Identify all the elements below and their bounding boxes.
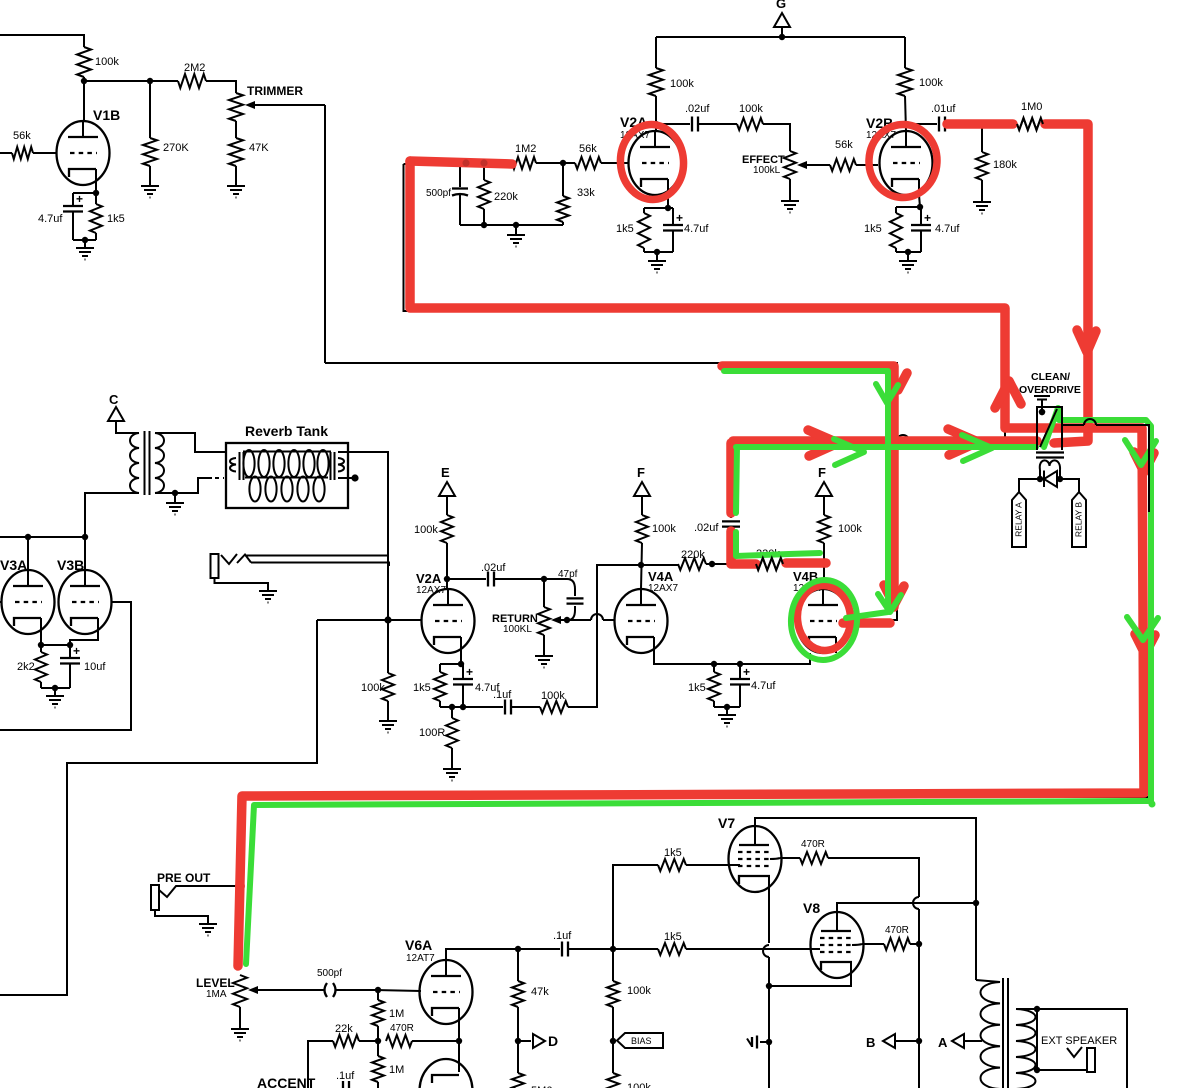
resistor 56k (V2B grid)	[830, 159, 856, 171]
signal wire to LEVEL pot (under marker)	[240, 797, 1149, 968]
wire 2M2 to TRIMMER	[206, 81, 236, 93]
wire transformer primary bottom to V3 plates rail	[85, 493, 139, 537]
svg-text:1M: 1M	[389, 1008, 404, 1020]
wire feedback to V4A plate node	[568, 565, 640, 707]
V7 cathode rail	[768, 876, 770, 943]
svg-text:56k: 56k	[835, 139, 853, 151]
ground below EFFECT pot	[789, 179, 791, 196]
wire transformer secondary top to tank input	[155, 433, 225, 452]
node junction V2A plate	[653, 121, 659, 127]
resistor 100k (V4B plate)	[823, 505, 825, 515]
cathode rail V4A V4B	[711, 661, 717, 667]
effects return wire to relay switch	[731, 440, 897, 442]
red marker effects send loop	[410, 161, 512, 164]
svg-text:EXT SPEAKER: EXT SPEAKER	[1041, 1035, 1117, 1047]
wire V3B grid loop to left edge	[0, 602, 131, 730]
red marker overdrive path from V2B coupling	[947, 119, 1013, 129]
red marker circle V2A	[618, 122, 686, 201]
svg-text:470R: 470R	[885, 925, 909, 936]
svg-text:4.7uf: 4.7uf	[751, 680, 776, 692]
capacitor 4.7uf (V2B cathode)	[920, 207, 922, 225]
svg-text:V2A: V2A	[416, 571, 442, 586]
cathode bottom rail and ground V4	[714, 706, 740, 708]
tank input transducer	[230, 458, 236, 472]
svg-text:1k5: 1k5	[688, 682, 706, 694]
red marker effects return line	[733, 436, 1037, 446]
svg-text:+: +	[743, 665, 750, 679]
svg-text:10uf: 10uf	[84, 661, 106, 673]
svg-text:.1uf: .1uf	[553, 930, 572, 942]
resistor 470R (V6A cathode)	[412, 1040, 459, 1042]
relay separator plates	[1036, 451, 1064, 453]
node junction 180k tap	[979, 121, 985, 127]
resistor 1M lower	[377, 1041, 379, 1056]
resistor 1k5 (V7 grid)	[613, 865, 658, 949]
svg-text:470R: 470R	[390, 1023, 414, 1034]
svg-text:2k2: 2k2	[17, 661, 35, 673]
svg-text:1k5: 1k5	[664, 847, 682, 859]
resistor 2M2	[178, 74, 206, 88]
svg-text:4.7uf: 4.7uf	[935, 223, 960, 235]
svg-text:OVERDRIVE: OVERDRIVE	[1019, 384, 1081, 396]
resistor 100R	[451, 707, 453, 718]
svg-text:.1uf: .1uf	[336, 1070, 355, 1082]
wire G rail to both 100k plate resistors	[656, 36, 905, 38]
capacitor .1uf (phase inverter coupling)	[518, 948, 560, 950]
resistor 100k (V2B plate)	[898, 68, 912, 96]
svg-text:1k5: 1k5	[864, 223, 882, 235]
node junction 500pf to 1M	[375, 987, 381, 993]
wire 100k to V1B plate with node	[83, 77, 85, 122]
node D	[518, 1040, 531, 1042]
svg-text:100k: 100k	[838, 523, 862, 535]
svg-text:F: F	[637, 465, 645, 480]
svg-text:C: C	[109, 392, 119, 407]
resistor 1k5 (V4 cathode)	[713, 664, 715, 672]
svg-text:.02uf: .02uf	[694, 522, 719, 534]
svg-text:470R: 470R	[801, 839, 825, 850]
svg-text:1M2: 1M2	[515, 143, 536, 155]
capacitor 4.7uf (V4 cathode)	[739, 664, 741, 679]
svg-text:500pf: 500pf	[317, 968, 342, 979]
svg-text:100k: 100k	[627, 985, 651, 997]
wire V7 plate to OT primary top	[755, 818, 976, 980]
resistor 100k (feedback)	[511, 706, 540, 708]
svg-text:100kL: 100kL	[753, 165, 781, 176]
jack PRE OUT sleeve ground	[155, 910, 208, 919]
effects send wire (under red marker)	[404, 164, 1006, 440]
green marker circle V4B	[788, 578, 859, 662]
relay switch contact node	[1039, 409, 1045, 415]
trimmer wiper arrow	[253, 104, 325, 106]
red marker dot at PRE OUT	[235, 881, 245, 891]
wire return blend loop	[0, 620, 317, 995]
wire to RELAY B flag	[1060, 479, 1079, 492]
relay switch redrawn over marker	[1037, 407, 1062, 450]
svg-text:.02uf: .02uf	[481, 562, 506, 574]
svg-text:D: D	[548, 1033, 558, 1049]
svg-text:22k: 22k	[335, 1023, 353, 1035]
svg-text:12AT7: 12AT7	[406, 953, 435, 964]
RETURN wiper arrow to V4A grid	[560, 619, 591, 621]
resistor 100k (V1B plate)	[77, 47, 91, 77]
cathode hop over V8 grid wire	[763, 945, 769, 957]
wire V1B cathode to bypass network	[95, 185, 97, 193]
svg-text:56k: 56k	[579, 143, 597, 155]
ground below return load	[387, 701, 389, 716]
svg-text:+: +	[676, 211, 683, 225]
wire 1M2 to 56k with 33k node	[536, 162, 575, 164]
svg-text:RELAY B: RELAY B	[1073, 502, 1083, 537]
trimmer potentiometer TRIMMER	[229, 93, 243, 121]
cathode rail to bypass cap	[768, 986, 770, 1088]
wire input network to 1M2	[404, 163, 513, 164]
resistor 47K	[235, 121, 237, 138]
red marker down to .02uf	[726, 443, 736, 513]
cathode bottom rail and ground V3	[41, 687, 70, 689]
resistor 1k5 (V8 grid)	[613, 948, 658, 950]
return cable jack J1	[211, 554, 219, 578]
wire 47k to node D junction	[517, 1007, 519, 1041]
wire to EFFECT pot top	[763, 124, 790, 151]
wire V3A grid to left edge	[0, 601, 1, 603]
ground below 180k	[981, 180, 983, 197]
resistor 1k5 (V2A cathode)	[643, 208, 645, 213]
svg-text:47pf: 47pf	[558, 569, 578, 580]
jack EXT SPEAKER	[1037, 1069, 1087, 1071]
green marker effects return line	[736, 444, 1036, 450]
relay switch lever	[1040, 409, 1057, 447]
resistor 220k input	[483, 164, 485, 180]
capacitor 500pf (to V6A grid)	[325, 983, 328, 997]
wire 100k to BIAS junction	[612, 1007, 614, 1041]
svg-text:G: G	[776, 0, 786, 11]
wire 100k to V2A plate node	[446, 543, 448, 589]
cathode bottom rail and ground V2B	[896, 251, 921, 253]
wire 1k5 to V8 grid	[686, 948, 820, 950]
relay output wire to power amp	[1062, 424, 1084, 426]
wire V4A cathode to shared network	[654, 653, 714, 664]
resistor 1M0 redrawn over marker	[1017, 118, 1043, 130]
wire V2B cathode to bypass	[919, 195, 920, 207]
svg-text:1k5: 1k5	[664, 931, 682, 943]
resistor 1k5 (V1B cathode)	[95, 193, 97, 204]
svg-text:4.7uf: 4.7uf	[684, 223, 709, 235]
resistor 1M upper	[372, 1000, 384, 1026]
red marker arrow down from overdrive line	[1077, 330, 1096, 352]
capacitor 500pf input	[459, 164, 461, 187]
wire V6A plate to coupling rail	[446, 949, 518, 976]
wire 100k to V2A plate	[655, 96, 657, 131]
red marker circle V2B	[867, 123, 939, 199]
svg-text:100k: 100k	[739, 103, 763, 115]
capacitor .02uf (V2A coupling)	[656, 123, 690, 125]
wire to 2M2	[150, 80, 178, 82]
resistor 1M2	[512, 157, 536, 169]
wire 220k to .02uf node	[706, 563, 756, 565]
mini ground above relay switch	[1041, 390, 1043, 392]
potentiometer RETURN 100KL	[543, 579, 545, 607]
reverb springs	[243, 451, 331, 453]
svg-text:Reverb Tank: Reverb Tank	[245, 423, 328, 439]
svg-text:1k5: 1k5	[413, 682, 431, 694]
resistor 100k (bias divider lower, cut off)	[612, 1041, 614, 1073]
resistor 100k (reverb return V2A plate)	[446, 505, 448, 515]
svg-text:CLEAN/: CLEAN/	[1031, 371, 1070, 383]
resistor 220k (V4B grid)	[756, 558, 783, 570]
wire transformer secondary bottom grounded	[155, 478, 212, 493]
ground below RETURN pot	[543, 635, 545, 651]
svg-text:100k: 100k	[670, 78, 694, 90]
cathode bottom rail V2A mid	[440, 706, 463, 708]
red marker circle V4B	[795, 583, 853, 652]
wire 470R to screen rail	[828, 858, 919, 897]
svg-text:1MA: 1MA	[206, 989, 227, 1000]
wire V6A cathode down to V6B	[458, 1041, 460, 1072]
cathode bottom rail and ground V2A	[644, 251, 673, 253]
jack PRE OUT	[151, 885, 159, 910]
capacitor 4.7uf (V2A cathode)	[672, 208, 674, 225]
wire secondary top to speaker loop	[1016, 1008, 1037, 1010]
node junction OT feed	[973, 900, 979, 906]
resistor 33k	[562, 163, 564, 196]
resistor 1k5 (V2A mid cathode)	[439, 664, 441, 672]
resistor 100k (bias divider upper)	[612, 949, 614, 981]
wire long clean feed to V4B grid	[325, 363, 897, 620]
ground reverb secondary	[174, 493, 176, 498]
green marker return-to-V4B vertical	[724, 371, 888, 618]
resistor 220k (V4A plate out)	[641, 564, 678, 566]
capacitor 47pf bridge	[544, 579, 575, 596]
svg-text:500pf: 500pf	[426, 188, 451, 199]
svg-text:A: A	[938, 1035, 948, 1050]
screen rail hop over plate wire	[913, 897, 919, 909]
resistor 1k5 (V2B cathode)	[895, 207, 897, 213]
bottom rail 500pf/220k/33k with ground	[460, 224, 563, 226]
triode V6B (cut off at bottom)	[420, 1059, 473, 1088]
svg-text:2M2: 2M2	[184, 62, 205, 74]
red marker return-to-V4B vertical	[722, 366, 894, 607]
svg-text:270K: 270K	[163, 142, 189, 154]
ground below LEVEL	[239, 1007, 241, 1024]
resistor 220k redrawn over marker	[756, 558, 783, 570]
svg-text:V1B: V1B	[93, 107, 120, 123]
svg-text:+: +	[924, 211, 931, 225]
relay output wire redrawn over marker	[1062, 424, 1084, 426]
svg-text:100k: 100k	[627, 1082, 651, 1088]
wire V2A cathode to bypass	[667, 195, 669, 208]
svg-text:100k: 100k	[95, 56, 119, 68]
svg-text:1k5: 1k5	[616, 223, 634, 235]
wire 1k5 to V7 grid	[686, 864, 740, 866]
wire cathodes V3A V3B to shared network	[40, 634, 42, 645]
reverb transformer T1	[130, 433, 139, 493]
svg-text:PRE OUT: PRE OUT	[157, 871, 211, 885]
wire V2A(mid) cathode to bypass	[460, 653, 462, 664]
svg-text:F: F	[818, 465, 826, 480]
svg-text:+: +	[466, 665, 473, 679]
cathode rail V2B top	[896, 206, 921, 208]
svg-text:1M0: 1M0	[1021, 101, 1042, 113]
output transformer core	[1002, 978, 1004, 1088]
node PRE OUT tap	[237, 883, 243, 889]
wire 100k to V4A plate node	[641, 543, 642, 589]
ground below 100R	[451, 748, 453, 764]
cathode rail V2A top	[644, 207, 673, 209]
cathode rail V1B	[73, 192, 96, 194]
svg-text:47k: 47k	[531, 986, 549, 998]
junction 22k 470R 1M	[377, 1026, 379, 1041]
capacitor bypass (V7/V8 cathode)	[760, 1041, 769, 1043]
relay switch frame	[1037, 407, 1062, 450]
wire 22k to ACCENT loop	[308, 1041, 333, 1088]
svg-text:180k: 180k	[993, 159, 1017, 171]
svg-text:33k: 33k	[577, 187, 595, 199]
svg-text:47K: 47K	[249, 142, 269, 154]
wire 220k to V4B grid node	[783, 563, 824, 565]
reverb return input wire with 100k load	[317, 619, 388, 621]
green marker down to .02uf and 220k	[736, 447, 737, 513]
svg-text:100k: 100k	[652, 523, 676, 535]
resistor 47k	[517, 949, 519, 981]
resistor 100k (to EFFECT pot)	[698, 123, 737, 125]
red marker arrows on return line	[948, 429, 978, 455]
screen rail down to B node	[918, 944, 920, 1041]
wire plate rail V3A V3B	[0, 536, 85, 538]
resistor 5M6 (cut off)	[517, 1041, 519, 1073]
capacitor .02uf (loop send)	[730, 531, 732, 564]
jack sleeve ground	[215, 578, 269, 586]
tank output transducer	[330, 452, 332, 480]
resistor 1M0	[1017, 118, 1043, 130]
V6A cathode wire to 470R	[458, 1024, 460, 1041]
resistor 56k (V1B grid)	[0, 152, 12, 154]
LEVEL wiper arrow	[256, 989, 318, 991]
cathode bottom rail and ground V1B	[73, 239, 96, 241]
node junction screen rail	[910, 943, 919, 945]
wire .01uf to 1M0 (under red marker)	[945, 123, 1017, 125]
svg-text:100k: 100k	[541, 690, 565, 702]
wire trimmer wiper to long feed wire	[324, 105, 326, 363]
resistor 22k	[333, 1035, 359, 1047]
wire V8 plate to OT feed	[837, 903, 976, 912]
wire tank output to reverb return	[338, 452, 388, 620]
svg-text:LEVEL: LEVEL	[196, 976, 235, 990]
relay coil	[1040, 460, 1060, 470]
svg-text:+: +	[76, 192, 83, 206]
svg-text:V6A: V6A	[405, 937, 432, 953]
flag BIAS	[617, 1033, 663, 1048]
node junction V2B plate	[902, 121, 908, 127]
resistor 100k (V4A plate)	[641, 505, 643, 515]
green marker dot at bottom right corner	[1149, 801, 1156, 808]
resistor 470R (V7 screen)	[780, 857, 800, 859]
tank output sleeve stub with node	[338, 477, 352, 479]
EFFECT wiper arrow to 56k	[805, 164, 830, 166]
svg-text:V4A: V4A	[648, 569, 674, 584]
svg-text:V7: V7	[718, 815, 735, 831]
svg-text:100k: 100k	[361, 682, 385, 694]
capacitor .02uf (return coupling)	[447, 578, 486, 580]
resistor 100k (reverb return load)	[387, 620, 389, 673]
svg-text:220k: 220k	[494, 191, 518, 203]
wire junction to 270K	[84, 80, 150, 82]
wire 1M0 to overdrive feed (under red marker)	[1043, 124, 1090, 443]
red marker arrows down right rail	[1134, 452, 1154, 472]
capacitor 4.7uf (V2A mid cathode)	[462, 664, 464, 679]
svg-text:.02uf: .02uf	[685, 103, 710, 115]
potentiometer EFFECT 100kL	[784, 151, 796, 179]
wire 100k to V4B plate node	[823, 543, 825, 589]
resistor 470R (V8 screen)	[862, 943, 884, 945]
flag RELAY B	[1072, 492, 1086, 547]
svg-text:1k5: 1k5	[107, 213, 125, 225]
svg-text:56k: 56k	[13, 130, 31, 142]
ground below 270K	[149, 166, 151, 181]
svg-text:RELAY A: RELAY A	[1013, 502, 1023, 537]
resistor 100k (V2A plate)	[649, 68, 663, 96]
svg-text:4.7uf: 4.7uf	[38, 213, 63, 225]
svg-text:+: +	[73, 644, 80, 658]
node junction at V1B plate	[81, 78, 87, 84]
svg-text:ACCENT: ACCENT	[257, 1075, 316, 1088]
red marker into V4B grid	[843, 618, 890, 628]
red marker junction blobs on input line	[462, 159, 469, 166]
svg-text:.01uf: .01uf	[931, 103, 956, 115]
output transformer OT primary	[976, 980, 1000, 1088]
svg-text:220k: 220k	[681, 549, 705, 561]
cathode rail V2A mid	[440, 663, 463, 665]
green marker arrows down right rail	[1125, 440, 1156, 465]
red marker arrow up at relay feed	[995, 381, 1021, 408]
dashed cable break to tank	[215, 477, 224, 479]
wire 100k to V2B plate	[905, 96, 906, 131]
output transformer secondary	[1016, 1009, 1036, 1088]
flag RELAY A	[1012, 492, 1026, 547]
resistor 56k (V2A grid)	[575, 157, 601, 169]
svg-text:B: B	[866, 1035, 875, 1050]
green marker clean path via relay lever	[246, 408, 1151, 964]
svg-text:E: E	[441, 465, 450, 480]
wire speaker jack branch	[1036, 1009, 1038, 1070]
ground below 47K	[235, 166, 237, 181]
capacitor .01uf (V2B coupling)	[905, 123, 937, 125]
capacitor .1uf (feedback)	[463, 706, 503, 708]
svg-text:100k: 100k	[414, 524, 438, 536]
relay diode	[1043, 471, 1045, 488]
wire left-edge to 100k plate resistor V1B	[0, 35, 84, 47]
vertical rail 1M divider	[377, 990, 379, 1000]
svg-text:.1uf: .1uf	[493, 689, 512, 701]
svg-text:TRIMMER: TRIMMER	[247, 84, 303, 98]
svg-text:100KL: 100KL	[503, 624, 532, 635]
wire grid V2A from 56k input chain	[601, 162, 628, 164]
resistor 270K	[149, 81, 151, 138]
screen rail to bottom edge	[918, 1041, 920, 1088]
capacitor 10uf (V3 cathode)	[69, 645, 71, 658]
svg-text:100R: 100R	[419, 727, 445, 739]
wire hop over feedback line	[591, 614, 603, 620]
svg-text:BIAS: BIAS	[631, 1036, 652, 1046]
green marker arrows on return line	[962, 435, 992, 461]
svg-text:100k: 100k	[919, 77, 943, 89]
wire to RELAY A flag	[1019, 479, 1040, 492]
potentiometer LEVEL 1MA	[233, 975, 247, 1007]
resistor 2k2 (V3 cathode)	[40, 645, 42, 652]
resistor 180k	[981, 124, 983, 152]
svg-text:V8: V8	[803, 900, 820, 916]
capacitor 4.7uf (V1B cathode)	[72, 193, 74, 206]
